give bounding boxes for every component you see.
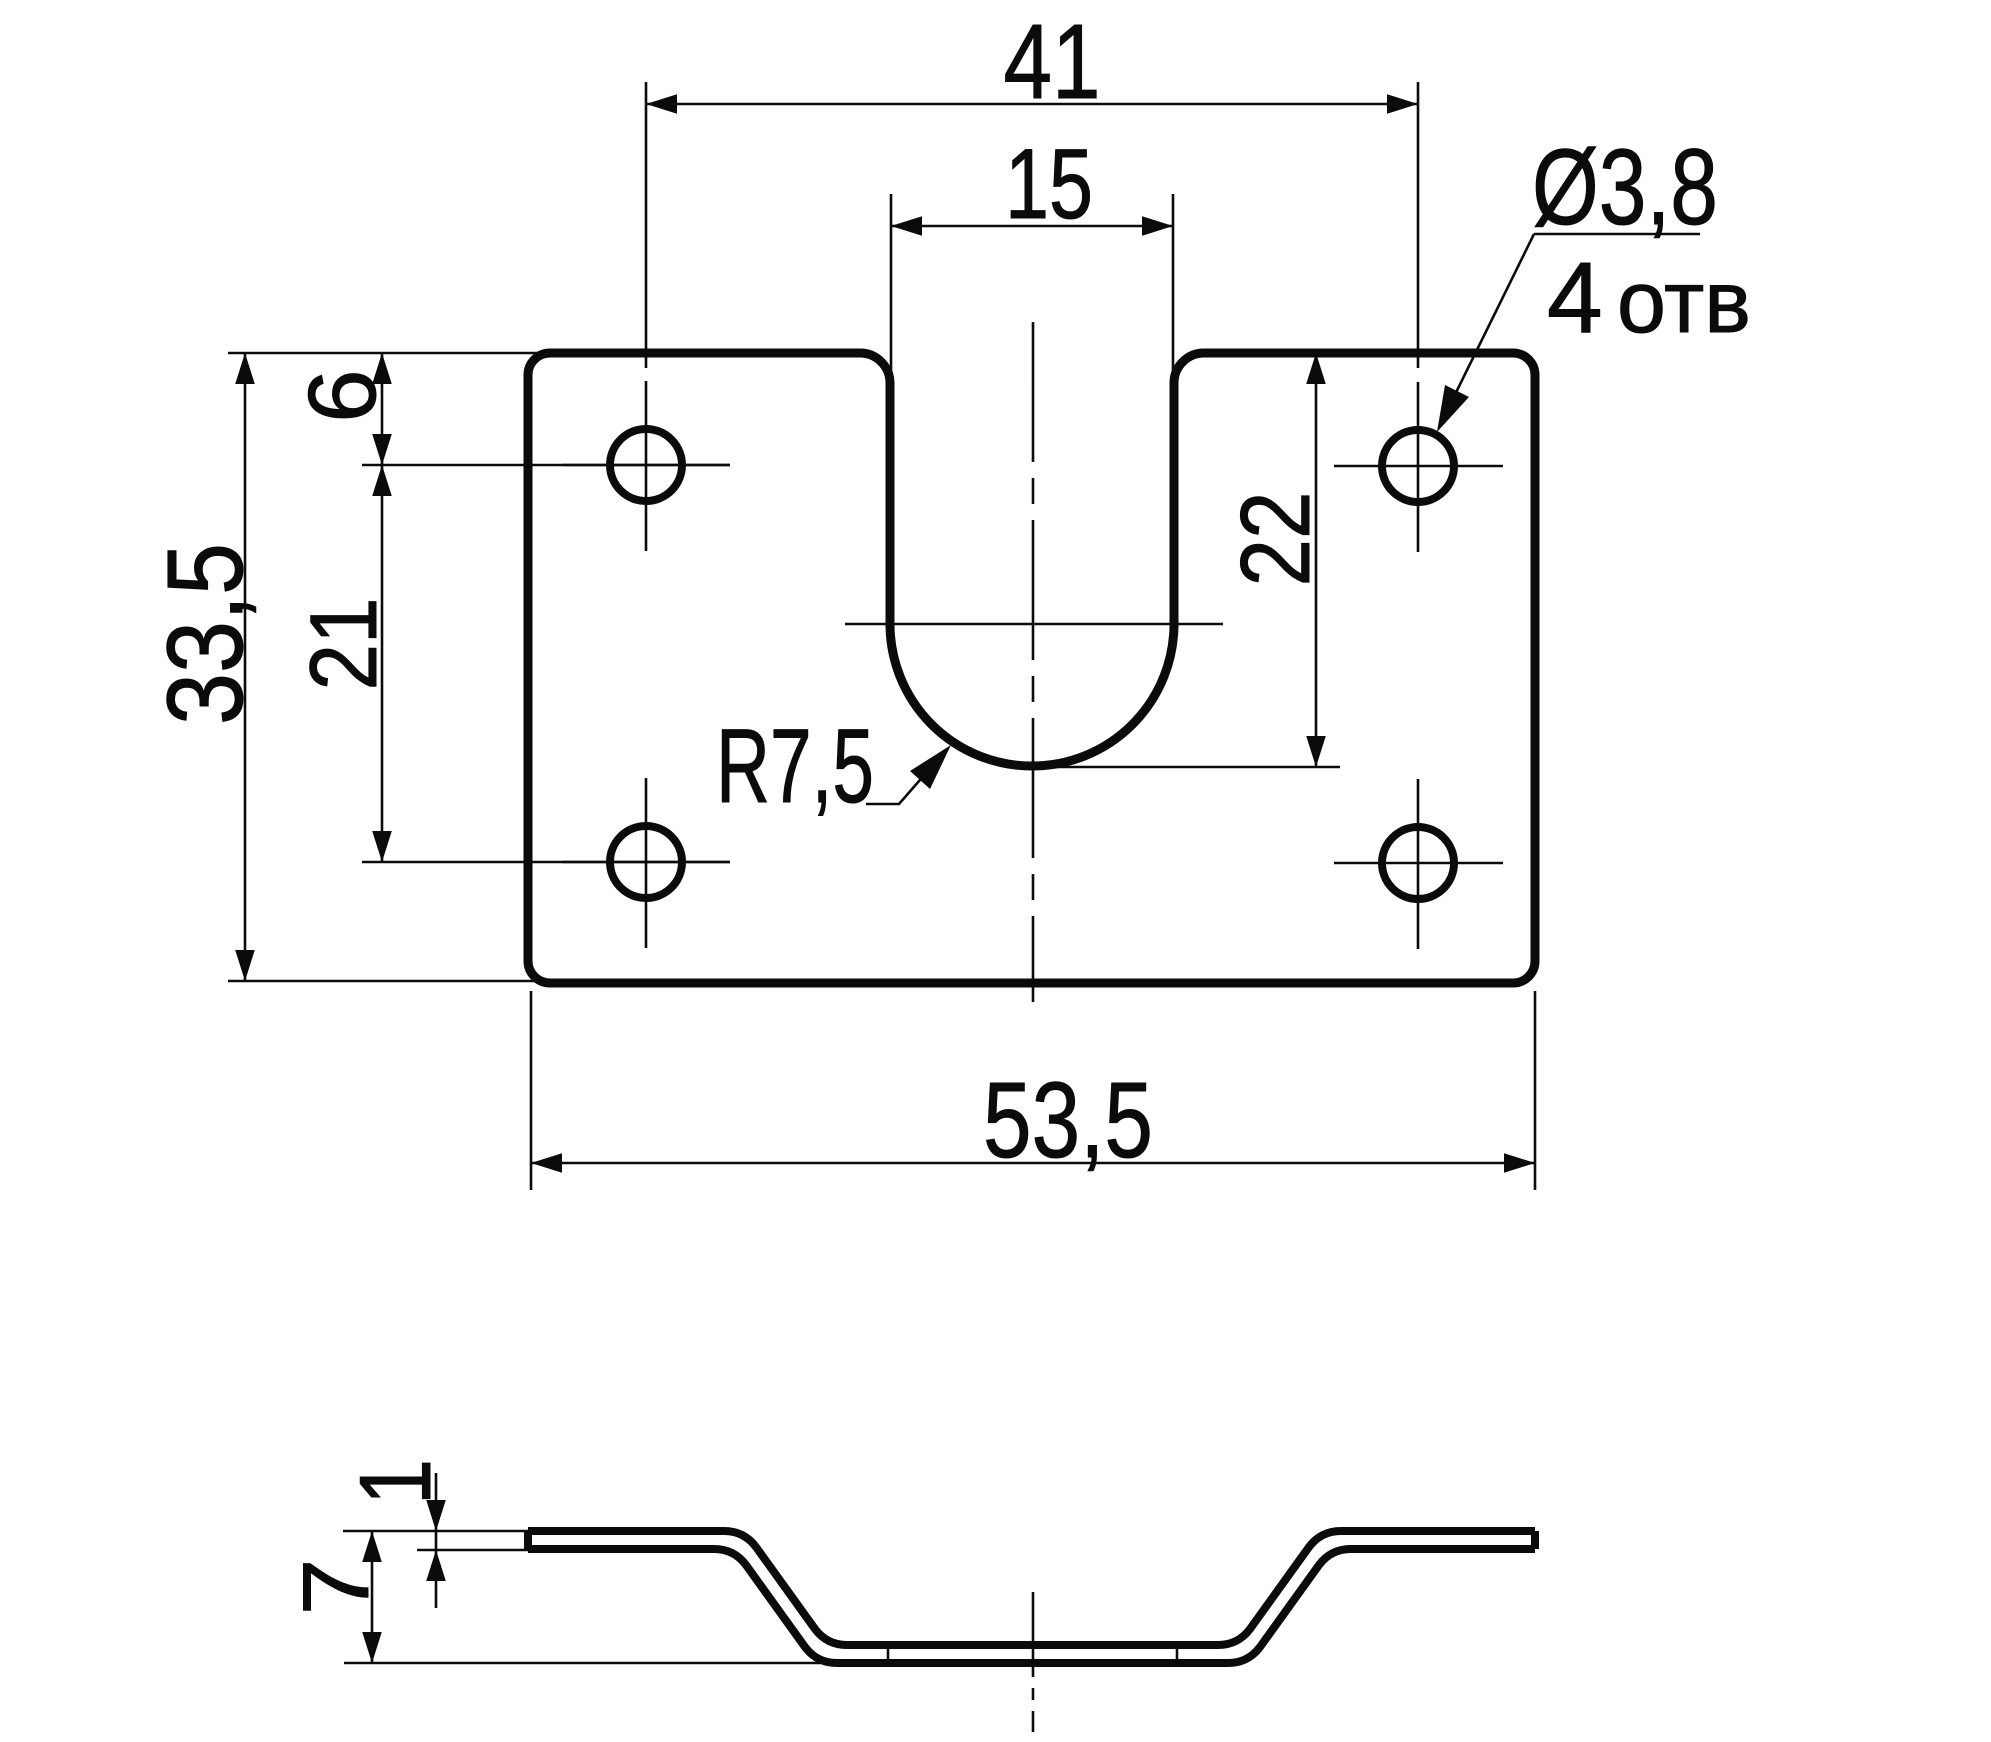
svg-text:4: 4 xyxy=(1547,242,1603,354)
svg-text:41: 41 xyxy=(1004,3,1101,121)
svg-text:33,5: 33,5 xyxy=(144,543,265,725)
svg-text:15: 15 xyxy=(1005,128,1093,239)
svg-text:Ø3,8: Ø3,8 xyxy=(1532,126,1718,247)
svg-text:22: 22 xyxy=(1220,492,1330,587)
svg-text:отв: отв xyxy=(1617,252,1751,351)
svg-text:53,5: 53,5 xyxy=(983,1059,1153,1180)
svg-text:6: 6 xyxy=(289,369,396,422)
svg-text:21: 21 xyxy=(291,598,397,691)
svg-text:R7,5: R7,5 xyxy=(716,708,874,825)
